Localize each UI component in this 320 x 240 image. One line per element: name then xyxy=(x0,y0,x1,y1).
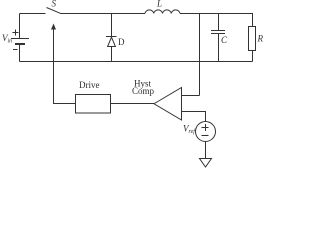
svg-text:Vref: Vref xyxy=(183,124,196,136)
svg-text:C: C xyxy=(221,35,228,45)
svg-text:L: L xyxy=(156,0,162,9)
svg-text:Vin: Vin xyxy=(2,33,12,45)
svg-text:S: S xyxy=(52,0,57,9)
svg-text:Drive: Drive xyxy=(79,80,100,90)
svg-text:D: D xyxy=(118,37,125,47)
svg-text:R: R xyxy=(257,34,264,44)
svg-text:Comp: Comp xyxy=(132,86,155,96)
